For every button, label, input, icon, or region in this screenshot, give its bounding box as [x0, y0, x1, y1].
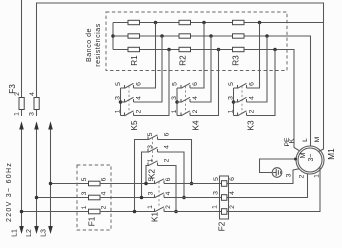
overload relay F2: [220, 176, 229, 219]
node junction riser on row B: [140, 196, 144, 200]
svg-text:2: 2: [135, 109, 142, 113]
wire K2 input pole 3 to row B: [142, 152, 149, 198]
svg-text:1: 1: [313, 174, 320, 178]
svg-text:resistências: resistências: [95, 23, 102, 67]
wire supply line L2: [34, 121, 39, 234]
wire K4 pole 6 to rail 1: [190, 23, 204, 89]
wire supply line L1: [19, 121, 24, 234]
wire L2 to fuse F1 pole 3-4: [37, 197, 89, 199]
resistor bank dashed enclosure: [106, 12, 287, 71]
resistor R3: [233, 20, 245, 51]
wire PE conductor: [260, 159, 297, 173]
svg-text:Banco de: Banco de: [86, 28, 93, 62]
fuse F3 pole 3-4: [34, 98, 39, 117]
wire K4 pole 2 to rail 3: [190, 50, 219, 116]
svg-text:3: 3: [28, 112, 35, 116]
fuse block F1 dashed enclosure: [77, 165, 111, 230]
fuse F1 pole 3-4: [89, 195, 101, 200]
svg-text:5: 5: [148, 177, 155, 181]
svg-text:F2: F2: [218, 221, 227, 231]
svg-text:F1: F1: [88, 216, 97, 226]
node junction riser on row A: [144, 182, 148, 186]
label Banco de resistências: [86, 23, 102, 67]
svg-text:L2: L2: [26, 229, 33, 237]
svg-text:2: 2: [165, 205, 172, 209]
wire K5 pole 4 to rail 2: [134, 36, 163, 102]
svg-text:M: M: [314, 136, 321, 142]
wire K3 pole 2 to rail 3: [247, 50, 276, 116]
svg-text:2: 2: [229, 205, 236, 209]
svg-text:L3: L3: [40, 229, 47, 237]
wire K1 output row B' to motor terminal 2: [164, 174, 308, 198]
wire F3 output to motor slip ring M: [37, 3, 324, 152]
svg-text:M1: M1: [327, 148, 336, 160]
svg-text:3~: 3~: [308, 154, 315, 162]
svg-text:3: 3: [114, 96, 121, 100]
contactor K2: [148, 135, 158, 166]
svg-text:F3: F3: [8, 84, 17, 94]
motor M1: [296, 146, 324, 174]
svg-text:4: 4: [100, 191, 107, 195]
svg-text:3: 3: [212, 191, 219, 195]
svg-text:4: 4: [29, 92, 36, 96]
svg-text:6: 6: [248, 82, 255, 86]
node junction L1 tap: [20, 210, 24, 214]
wire rotor rail 2 to slip ring L: [113, 34, 311, 146]
svg-text:3: 3: [147, 145, 154, 149]
svg-text:1: 1: [171, 109, 178, 113]
contactor K1: [155, 179, 165, 212]
svg-text:K2: K2: [148, 169, 157, 179]
svg-text:2: 2: [298, 174, 305, 178]
node junction on row B': [182, 196, 186, 200]
svg-text:6: 6: [192, 82, 199, 86]
wire K1 output row C' to motor terminal 1: [164, 167, 320, 212]
svg-text:2: 2: [163, 158, 170, 162]
svg-text:5: 5: [115, 82, 122, 86]
svg-text:4: 4: [229, 191, 236, 195]
node junction on row C': [174, 210, 178, 214]
wire L3 to fuse F1 pole 5-6: [51, 183, 89, 185]
svg-text:R3: R3: [232, 55, 241, 66]
svg-text:M: M: [300, 152, 307, 158]
svg-text:R2: R2: [179, 55, 188, 66]
fuse F1 pole 1-2: [89, 209, 101, 214]
svg-text:1: 1: [147, 158, 154, 162]
node junction L3 tap: [49, 182, 53, 186]
wire F1 to contactor K1 row C: [100, 211, 155, 213]
svg-text:6: 6: [229, 177, 236, 181]
wire K5 pole 6 to rail 1: [134, 23, 156, 89]
svg-text:5: 5: [81, 177, 88, 181]
svg-text:1: 1: [81, 205, 88, 209]
node junction on row A': [190, 182, 194, 186]
svg-text:5: 5: [147, 132, 154, 136]
svg-text:5: 5: [213, 177, 220, 181]
svg-text:6: 6: [165, 177, 172, 181]
svg-text:2: 2: [100, 205, 107, 209]
svg-text:L: L: [302, 138, 309, 142]
svg-text:2: 2: [248, 109, 255, 113]
svg-text:4: 4: [135, 96, 142, 100]
wire F1 to contactor K1 row A: [100, 183, 155, 185]
contactor K3: [232, 83, 247, 116]
contactor K5: [119, 83, 134, 116]
wire supply line L3: [48, 121, 53, 234]
contactor K4: [175, 83, 190, 116]
svg-text:3: 3: [147, 191, 154, 195]
wire K3 pole 6 to rail 1: [247, 23, 260, 89]
svg-text:2: 2: [192, 109, 199, 113]
wire F1 to contactor K1 row B: [100, 197, 155, 199]
node junction riser on row C: [133, 210, 137, 214]
svg-text:1: 1: [13, 112, 20, 116]
svg-text:3: 3: [285, 173, 292, 177]
svg-text:3: 3: [171, 96, 178, 100]
svg-text:4: 4: [192, 96, 199, 100]
wire K5 pole 2 to rail 3: [134, 50, 170, 116]
resistor R1: [128, 20, 140, 51]
wire K2 input pole 5 to row C: [135, 140, 149, 212]
svg-text:L1: L1: [11, 229, 18, 237]
wire rotor rail 3 to slip ring K: [113, 48, 299, 151]
wire K2 output pole 2 to row C': [158, 166, 177, 212]
svg-text:4: 4: [248, 96, 255, 100]
wire L1 to fuse F1 pole 1-2: [22, 211, 89, 213]
svg-text:5: 5: [171, 82, 178, 86]
fuse F1 pole 5-6: [89, 181, 101, 186]
svg-text:4: 4: [163, 145, 170, 149]
fuse F3 pole 1-2: [19, 0, 24, 116]
node rotor star bus: [111, 23, 115, 50]
svg-text:6: 6: [100, 177, 107, 181]
resistor R2: [179, 20, 191, 51]
svg-text:5: 5: [228, 82, 235, 86]
node PE terminal: [294, 158, 297, 161]
node junction L2 tap: [35, 196, 39, 200]
earth electrode: [272, 168, 282, 178]
svg-text:4: 4: [165, 191, 172, 195]
svg-text:3: 3: [81, 191, 88, 195]
svg-text:3: 3: [227, 96, 234, 100]
svg-text:6: 6: [135, 82, 142, 86]
wire K1 output row A' to motor terminal 3: [164, 169, 299, 184]
wire K2 output pole 4 to row B': [158, 152, 185, 198]
wire rotor rail 1: [113, 21, 324, 25]
svg-text:K5: K5: [130, 120, 139, 130]
wire K2 input pole 1 to row A: [146, 166, 148, 184]
svg-text:1: 1: [147, 205, 154, 209]
wire K3 pole 4 to rail 2: [247, 36, 268, 102]
svg-text:1: 1: [227, 109, 234, 113]
svg-text:K4: K4: [191, 120, 200, 130]
wire K4 pole 4 to rail 2: [190, 36, 211, 102]
wire K2 output pole 6 to row A': [158, 140, 192, 184]
svg-text:1: 1: [211, 205, 218, 209]
svg-text:220V 3~ 60Hz: 220V 3~ 60Hz: [6, 162, 13, 222]
svg-text:K1: K1: [151, 212, 160, 222]
svg-text:6: 6: [163, 132, 170, 136]
svg-text:R1: R1: [130, 55, 139, 66]
svg-text:K3: K3: [246, 120, 255, 130]
svg-text:1: 1: [114, 109, 121, 113]
